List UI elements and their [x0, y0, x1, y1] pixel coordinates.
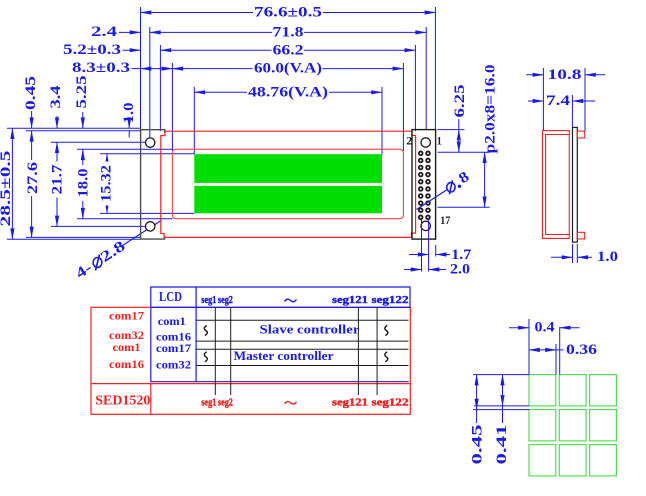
side view pcb bar (black) [573, 127, 578, 242]
table column line seg1 [214, 307, 216, 395]
dim 7.4 left arrow [528, 100, 543, 102]
dim 1.0 right arrow (side) [577, 256, 592, 258]
ext line x=572.4 bar left [571, 95, 573, 127]
table red outer box [91, 307, 410, 414]
leader line 4-Φ2.8 [121, 220, 162, 247]
svg-text:com1: com1 [158, 314, 186, 328]
svg-text:p2.0x8=16.0: p2.0x8=16.0 [483, 65, 499, 154]
mounting hole bottom-left [146, 222, 155, 231]
ext line x=543.4 side left [542, 68, 544, 130]
svg-text:seg121: seg121 [332, 396, 368, 408]
ext line x=403.4 bezel window right [402, 63, 404, 151]
ext line x=426.2 hole center right [425, 27, 427, 129]
svg-text:com16: com16 [109, 357, 144, 371]
table row line D [196, 365, 408, 367]
dim 0.45 line [476, 375, 478, 410]
svg-text:seg1: seg1 [201, 396, 216, 408]
table row line B [196, 340, 408, 342]
mounting hole top-left [146, 138, 155, 147]
squiggle break symbol [385, 326, 388, 336]
ext line y=129.6 header top [438, 129, 465, 131]
pin pads 2x10 [418, 151, 431, 221]
PCB outline (red) [161, 131, 416, 237]
dim p2.0x8=16.0 line [484, 152, 486, 207]
ext line x=435.4 module right [434, 7, 436, 129]
table column line seg2 [230, 307, 232, 395]
svg-text:27.6: 27.6 [25, 161, 41, 194]
svg-text:5.25: 5.25 [74, 76, 90, 109]
svg-text:28.5±0.5: 28.5±0.5 [0, 151, 14, 227]
dim 8.3 arrows [141, 68, 173, 70]
table blue divider LCD column [195, 287, 197, 382]
svg-text:com1: com1 [113, 340, 141, 354]
ext line y=207.3 pin row 9 [438, 206, 490, 208]
svg-text:60.0(V.A): 60.0(V.A) [254, 61, 322, 77]
table row line A [196, 319, 408, 321]
ext line x=572.5 bar bottom left [572, 244, 574, 263]
dim 1.0 tail [128, 131, 130, 138]
ext line y=142.2 hole center [51, 141, 146, 143]
ext line y=149.3 bezel top [77, 148, 173, 150]
svg-text:7.4: 7.4 [546, 93, 571, 109]
svg-text:com17: com17 [109, 309, 144, 323]
display line 1 (green) [194, 154, 382, 183]
svg-text:3.4: 3.4 [48, 85, 64, 109]
ext line x=382 active area right [381, 87, 383, 154]
table red divider horizontal [91, 383, 410, 385]
dim 2.0 right arrow [429, 269, 446, 271]
ext line y=374.6 grid row1 top [473, 374, 529, 376]
ext line y=130.8 pcb top [26, 130, 140, 132]
svg-text:15.32: 15.32 [98, 165, 114, 202]
dim text 15.32 [98, 162, 114, 206]
dim 6.25 line [458, 130, 460, 153]
ext line x=140.5 module left [140, 7, 142, 129]
table blue header underline [151, 306, 410, 308]
table red divider vertical SED cell [150, 384, 152, 415]
ext line y=226.4 hole center bottom [51, 225, 146, 227]
ext line y=409.6 grid row2 top [473, 409, 529, 411]
svg-text:1.0: 1.0 [121, 103, 137, 124]
dim 10.8 left arrow [526, 74, 543, 76]
dim 76.6 right arrow [415, 12, 435, 14]
svg-text:0.45: 0.45 [469, 425, 485, 465]
ext line x=415.4 pcb right [414, 45, 416, 131]
ext line y=405.9 grid row1 bottom [474, 405, 529, 407]
pin hole 17 (bottom) [421, 221, 430, 230]
squiggle tilde bottom red [285, 402, 297, 405]
side view bezel frame inner (red) [546, 135, 570, 235]
dim 48.76 line right [329, 91, 382, 93]
dim 1.0 arrow [128, 125, 130, 129]
dim 0.45 arrow [31, 111, 33, 128]
dim 48.76 line left [194, 91, 247, 93]
phi symbol of 4-Φ2.8 [93, 258, 102, 268]
svg-text:seg122: seg122 [372, 294, 410, 306]
dim 0.36 connector [556, 349, 564, 351]
svg-text:5.2±0.3: 5.2±0.3 [63, 42, 121, 58]
dim 6.25 stem [458, 119, 460, 130]
pixel grid 3x3 green squares [529, 375, 616, 476]
svg-text:seg121: seg121 [332, 294, 368, 306]
svg-text:2: 2 [406, 134, 412, 148]
dim 1.0 left arrow (side) [551, 256, 573, 258]
svg-text:76.6±0.5: 76.6±0.5 [254, 5, 322, 21]
svg-text:seg2: seg2 [218, 294, 233, 306]
ext line x=160.4 pcb left [159, 45, 161, 131]
ext line x=149.8 hole center [149, 27, 151, 139]
dim 76.6 left arrow [141, 12, 161, 14]
svg-text:1: 1 [437, 134, 442, 148]
dim text 18.0 [75, 165, 91, 201]
dim 5.2 arrow [123, 49, 141, 51]
svg-text:0.41: 0.41 [494, 425, 510, 465]
svg-text:2.0: 2.0 [450, 262, 470, 278]
table column line seg122 [376, 307, 378, 395]
dim 21.7 line [56, 142, 58, 226]
dim 66.2 line right [304, 49, 415, 51]
svg-text:66.2: 66.2 [273, 42, 304, 58]
dim 3.4 arrow [56, 116, 58, 128]
svg-text:0.45: 0.45 [23, 76, 39, 110]
svg-text:18.0: 18.0 [75, 169, 91, 198]
ext line y=239.2 frame bottom [7, 238, 140, 240]
svg-text:8.3±0.3: 8.3±0.3 [72, 60, 130, 76]
dim 8.3 connector [132, 68, 141, 70]
pin hole 1 (top) [421, 138, 430, 147]
dim 10.8 right arrow [585, 74, 605, 76]
ext line x=428.6 pin col right [428, 220, 430, 272]
dim 5.25 arrow [82, 112, 84, 128]
svg-text:0.36: 0.36 [566, 342, 598, 358]
svg-text:seg122: seg122 [372, 396, 410, 408]
ext line y=152.2 pin1 row [438, 151, 490, 153]
dim 1.7 left arrow [409, 254, 429, 256]
ext line x=585 side right [584, 68, 586, 131]
dim 66.2 line left [160, 49, 271, 51]
svg-text:com17: com17 [156, 341, 191, 355]
ext line x=577.3 bar bottom right [576, 244, 578, 263]
phi symbol of Φ.8 [447, 183, 455, 192]
dim 7.4 right arrow [572, 100, 595, 102]
dim 27.6 line [31, 131, 33, 238]
side view bottom stub (red) [577, 232, 584, 239]
svg-text:21.7: 21.7 [49, 164, 65, 195]
svg-text:LCD: LCD [159, 290, 182, 305]
squiggle break symbol [204, 352, 207, 362]
display bezel window (red rounded rect) [172, 149, 403, 219]
svg-text:com32: com32 [156, 357, 191, 371]
dim 60.0 line right [323, 68, 404, 70]
svg-text:10.8: 10.8 [548, 67, 582, 83]
dim 60.0 line left [172, 68, 252, 70]
dim 76.6±0.5 line left [141, 12, 254, 14]
svg-text:1.7: 1.7 [451, 247, 472, 263]
dim 0.36 line [529, 349, 556, 351]
squiggle break symbol [385, 352, 388, 362]
dim 71.8 line left [150, 31, 272, 33]
svg-text:Slave controller: Slave controller [260, 322, 360, 337]
dim 1.7 right arrow [436, 254, 450, 256]
svg-text:2.4: 2.4 [91, 24, 118, 40]
side view bezel frame outer (red) [542, 131, 569, 239]
svg-text:71.8: 71.8 [273, 25, 304, 41]
ext line x=194.3 active area left [193, 87, 195, 154]
svg-text:17: 17 [440, 213, 450, 227]
table blue box [151, 287, 410, 382]
svg-text:1.0: 1.0 [597, 249, 618, 265]
display line 2 (green) [194, 186, 382, 213]
dim 76.6 line right [323, 12, 435, 14]
dim 15.32 line [106, 154, 108, 214]
svg-text:seg2: seg2 [218, 396, 233, 408]
svg-text:Master controller: Master controller [234, 348, 334, 363]
ext line y=237.4 pcb bottom [26, 236, 140, 238]
ext line x=172.4 bezel window left [171, 63, 173, 151]
dim 0.41 stem [502, 406, 504, 423]
squiggle break symbol [204, 326, 207, 336]
dim text 27.6 [25, 160, 41, 196]
dim 71.8 line right [304, 31, 426, 33]
dim 28.5 line [11, 128, 13, 239]
ext line y=128.2 frame top [7, 127, 140, 129]
ext line x=556 grid col1 right [555, 344, 557, 375]
svg-text:SED1520: SED1520 [95, 393, 150, 408]
dim 0.4 right arrow [560, 327, 580, 329]
ext line x=529 grid col1 left [528, 319, 530, 375]
svg-text:0.4: 0.4 [535, 320, 556, 336]
ext line y=218.7 bezel bottom [77, 218, 173, 220]
side view top stub (red) [577, 131, 584, 138]
svg-text:6.25: 6.25 [452, 85, 468, 118]
svg-text:48.76(V.A): 48.76(V.A) [248, 84, 328, 100]
dim 2.0 left arrow [404, 269, 422, 271]
dim 18.0 line [82, 149, 84, 218]
LCD module frame left tab [141, 130, 165, 239]
ext line x=559.7 grid col2 left [559, 327, 561, 375]
ext line x=435.7 [435, 245, 437, 257]
dim 0.45 stem [476, 410, 478, 423]
pin header box [412, 130, 436, 240]
squiggle tilde header blue [285, 299, 297, 302]
svg-text:seg1: seg1 [201, 294, 216, 306]
ext line x=421.5 pin col left [421, 220, 423, 272]
dim text 21.7 [49, 162, 65, 198]
table row line C [196, 348, 408, 350]
ext line y=153.8 va top [100, 153, 194, 155]
dim 2.4 arrow [119, 31, 141, 33]
ext line y=213.4 va bottom [100, 212, 194, 214]
leader line Φ.8 [417, 190, 447, 210]
dim 0.41 line [502, 375, 504, 406]
dim 0.4 left arrow [509, 327, 529, 329]
table column line seg121 [357, 307, 359, 395]
